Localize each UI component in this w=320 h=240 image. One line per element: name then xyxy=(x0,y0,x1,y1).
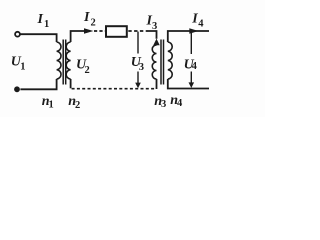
svg-text:4: 4 xyxy=(192,61,198,72)
svg-text:3: 3 xyxy=(161,99,166,110)
svg-text:I: I xyxy=(191,12,198,27)
svg-text:2: 2 xyxy=(85,65,90,76)
svg-text:3: 3 xyxy=(152,21,157,32)
svg-text:I: I xyxy=(83,10,90,25)
svg-text:3: 3 xyxy=(139,62,144,73)
svg-text:1: 1 xyxy=(49,100,54,111)
svg-text:2: 2 xyxy=(75,100,80,111)
svg-text:4: 4 xyxy=(198,19,204,30)
svg-text:4: 4 xyxy=(177,98,183,109)
svg-text:I: I xyxy=(37,12,44,27)
svg-text:1: 1 xyxy=(20,61,25,72)
svg-text:1: 1 xyxy=(44,19,49,30)
svg-text:2: 2 xyxy=(91,17,96,28)
